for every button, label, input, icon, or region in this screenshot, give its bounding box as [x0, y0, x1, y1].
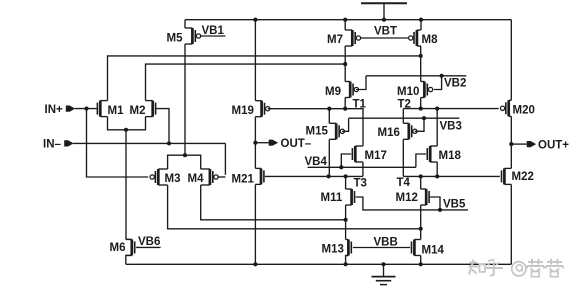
wire M14 source to rail [419, 256, 423, 267]
label M1 [108, 105, 125, 117]
svg-text:M9: M9 [325, 86, 341, 98]
label IN+ [45, 104, 64, 116]
wire VB3 line [349, 117, 460, 119]
wire M2 drain line to M9 [146, 64, 346, 101]
svg-text:M14: M14 [422, 245, 445, 257]
transistor M22 [502, 168, 512, 184]
wire M10 drain to T2 [419, 98, 423, 111]
svg-text:M7: M7 [327, 34, 343, 46]
wire M1 drain line to M10 [108, 56, 421, 101]
transistor M13 [346, 240, 352, 256]
junction M15 drain at T3 [327, 174, 331, 178]
wire M4 drain to M13 drain [201, 185, 346, 220]
wire M11 gate to VB5 [356, 197, 468, 210]
wire M6 gate VB6 stub [136, 246, 161, 248]
wire VB1 gate lead [200, 35, 226, 37]
label T1 [353, 99, 367, 111]
svg-text:M12: M12 [396, 192, 418, 204]
svg-text:M5: M5 [167, 33, 184, 45]
wire M16 drain down to T4 [402, 139, 404, 176]
wire M15 gate to VB3 [342, 118, 349, 131]
label VB1 [202, 25, 225, 37]
wire M11 drain up to T3 [345, 176, 347, 189]
label M16 [378, 127, 400, 139]
junction M2-line at M9 column [343, 62, 347, 66]
wire T3 line M21 gate [265, 175, 363, 177]
wire M18 source to T4 [435, 162, 439, 178]
junction M4 drain at M13 column [344, 218, 348, 222]
wire M8 drain to M10 source [420, 46, 422, 82]
svg-text:OUT–: OUT– [281, 138, 312, 150]
label M9 [325, 86, 341, 98]
label M22 [512, 171, 534, 183]
wire M12 gate to VB5 [430, 197, 442, 212]
wire M19 source to rail [253, 18, 257, 101]
wire M15 source up [328, 109, 330, 124]
junction M15 source at T1 [327, 107, 331, 111]
wire VB4 line [308, 166, 416, 168]
label VBT [374, 26, 397, 38]
label VB2 [444, 78, 466, 90]
label OUT- [281, 138, 312, 150]
watermark zhihu [469, 259, 564, 277]
wire M12 drain up to T4 [420, 176, 422, 189]
label T3 [354, 178, 367, 190]
wire M3 drain to M14 drain [168, 185, 421, 229]
transistor M4 [201, 169, 219, 185]
junction tail node [124, 128, 128, 132]
label IN- [43, 139, 62, 151]
svg-text:M8: M8 [422, 34, 439, 46]
svg-text:VB4: VB4 [305, 156, 328, 168]
svg-text:T1: T1 [353, 99, 367, 111]
terminal IN- [64, 140, 73, 146]
junction OUT- node [253, 141, 257, 145]
wire T2 line to M20 gate [403, 108, 498, 110]
transistor M7 [345, 30, 360, 46]
wire M22 source to rail [510, 184, 512, 264]
wire M13 source to rail [344, 256, 349, 267]
transistor M8 [409, 30, 421, 46]
transistor M3 [150, 169, 168, 185]
wire M7 source to rail [343, 18, 347, 30]
label VB6 [138, 236, 160, 248]
transistor M10 [421, 82, 433, 98]
svg-text:VB5: VB5 [443, 199, 466, 211]
junction M1-line at M10 column [419, 54, 423, 58]
junction M11 drain at T3 [344, 174, 348, 178]
wire M20 drain to OUT+ [510, 116, 512, 144]
wire M9 drain to T1 [343, 98, 347, 111]
junction M3 drain at M14 column [419, 227, 423, 231]
svg-text:M10: M10 [397, 86, 419, 98]
wire M9 gate to VB2 [356, 76, 366, 90]
label T4 [397, 177, 411, 189]
svg-text:VBB: VBB [374, 237, 398, 249]
svg-text:VBT: VBT [374, 26, 397, 38]
wire M8 source to rail [419, 18, 423, 30]
wire M7 drain to M9 source [344, 46, 346, 82]
label VBB [374, 237, 398, 249]
svg-text:M15: M15 [306, 126, 329, 138]
wire M17 source to T3 [362, 162, 364, 176]
terminal OUT- [255, 140, 278, 146]
svg-text:VB3: VB3 [440, 121, 462, 133]
svg-text:M20: M20 [513, 105, 535, 117]
wire M12 source down to M14 [420, 205, 422, 240]
wire M19 drain to OUT- [254, 117, 256, 143]
wire M5 drain down to node A [184, 44, 186, 155]
wire T4 line to M22 gate [403, 175, 500, 177]
transistor M17 [352, 146, 363, 162]
wire M18 gate to VB4 [416, 154, 426, 167]
wire IN+ down to M3 gate [87, 109, 149, 177]
transistor M5 [185, 28, 201, 44]
wire T1 line M19 gate [268, 109, 363, 146]
label VB4 [305, 156, 328, 168]
svg-text:OUT+: OUT+ [538, 139, 569, 151]
wire M10 gate to VB2 [434, 74, 444, 90]
transistor M11 [346, 189, 355, 205]
transistor M19 [255, 101, 270, 117]
wire IN- line [73, 142, 225, 144]
svg-text:M22: M22 [512, 171, 534, 183]
label OUT+ [538, 139, 569, 151]
junction M12 drain at T4 [419, 174, 423, 178]
svg-text:VB1: VB1 [202, 25, 225, 37]
svg-text:IN–: IN– [43, 139, 62, 151]
label M18 [439, 150, 462, 162]
wire M11 source down to M13 [345, 205, 347, 240]
svg-text:M16: M16 [378, 127, 400, 139]
label M2 [130, 105, 146, 117]
label VB3 [440, 121, 462, 133]
wire M16 gate to VB3 [415, 116, 426, 131]
junction OUT+ node [509, 142, 513, 146]
wire M4 gate stub [217, 176, 225, 178]
wire M15 drain down to T3 [328, 139, 330, 176]
transistor M2 [146, 101, 156, 117]
svg-text:VB6: VB6 [138, 236, 160, 248]
terminal OUT+ [511, 141, 536, 147]
wire VBT gate line [361, 37, 409, 39]
svg-text:M13: M13 [322, 244, 344, 256]
label M20 [513, 105, 535, 117]
svg-text:M6: M6 [110, 242, 126, 254]
svg-text:M17: M17 [365, 150, 387, 162]
wire OUT- to M21 drain [254, 143, 256, 169]
wire M3 M4 common source [168, 155, 201, 169]
svg-text:M1: M1 [108, 105, 125, 117]
label VB5 [443, 199, 466, 211]
transistor M15 [329, 123, 344, 139]
wire M16 source up to T2 [402, 109, 404, 124]
label M5 [167, 33, 184, 45]
wire tail down to M6 drain [125, 130, 127, 240]
wire bottom rail VSS [126, 263, 512, 265]
transistor M14 [412, 240, 421, 256]
wire M1 source to tail [108, 117, 127, 130]
svg-text:M18: M18 [439, 150, 462, 162]
wire VBB gate line [353, 247, 410, 249]
wire IN+ to M1 gate [75, 107, 98, 111]
wire M21 source to rail [253, 184, 257, 266]
svg-text:M11: M11 [321, 192, 343, 204]
svg-text:M21: M21 [232, 174, 255, 186]
label M8 [422, 34, 439, 46]
label M14 [422, 245, 445, 257]
label M10 [397, 86, 419, 98]
transistor M6 [126, 239, 135, 255]
svg-text:T4: T4 [397, 177, 411, 189]
transistor M20 [500, 100, 511, 116]
label M21 [232, 174, 255, 186]
transistor M16 [403, 123, 417, 139]
wire VB2 line [366, 75, 466, 77]
transistor M21 [255, 168, 264, 184]
svg-text:VB2: VB2 [444, 78, 466, 90]
wire M6 source to bottom rail [126, 255, 132, 264]
wire M2 source to tail [126, 117, 146, 130]
wire M4 gate to IN- [224, 143, 226, 174]
label M19 [232, 105, 254, 117]
label M12 [396, 192, 418, 204]
wire top VDD rail [185, 19, 511, 21]
wire M20 source to rail [510, 20, 512, 101]
transistor M18 [427, 146, 437, 162]
junction node A M5-M3/M4 [183, 153, 187, 157]
svg-text:M2: M2 [130, 105, 146, 117]
label M13 [322, 244, 344, 256]
transistor M1 [97, 101, 107, 117]
label M15 [306, 126, 329, 138]
ground symbol [372, 262, 396, 284]
svg-text:IN+: IN+ [45, 104, 64, 116]
wire T2 column down to M18 [435, 107, 439, 146]
wire M2 gate to IN- [156, 109, 171, 146]
transistor M9 [345, 82, 358, 98]
wire M5 source to rail [184, 20, 186, 28]
svg-text:M3: M3 [165, 173, 181, 185]
label M6 [110, 242, 126, 254]
label M7 [327, 34, 343, 46]
svg-text:M19: M19 [232, 105, 254, 117]
wire M17 gate to VB4 [339, 154, 351, 169]
svg-text:M4: M4 [188, 173, 205, 185]
svg-text:T3: T3 [354, 178, 367, 190]
transistor M12 [421, 189, 429, 205]
wire M6 drain bend [126, 238, 132, 240]
power supply symbol VDD [361, 3, 407, 22]
label T2 [398, 99, 411, 111]
label M11 [321, 192, 343, 204]
wire OUT+ to M22 drain [510, 144, 512, 168]
label M4 [188, 173, 205, 185]
terminal IN+ [66, 106, 75, 112]
label M3 [165, 173, 181, 185]
svg-text:T2: T2 [398, 99, 411, 111]
label M17 [365, 150, 387, 162]
